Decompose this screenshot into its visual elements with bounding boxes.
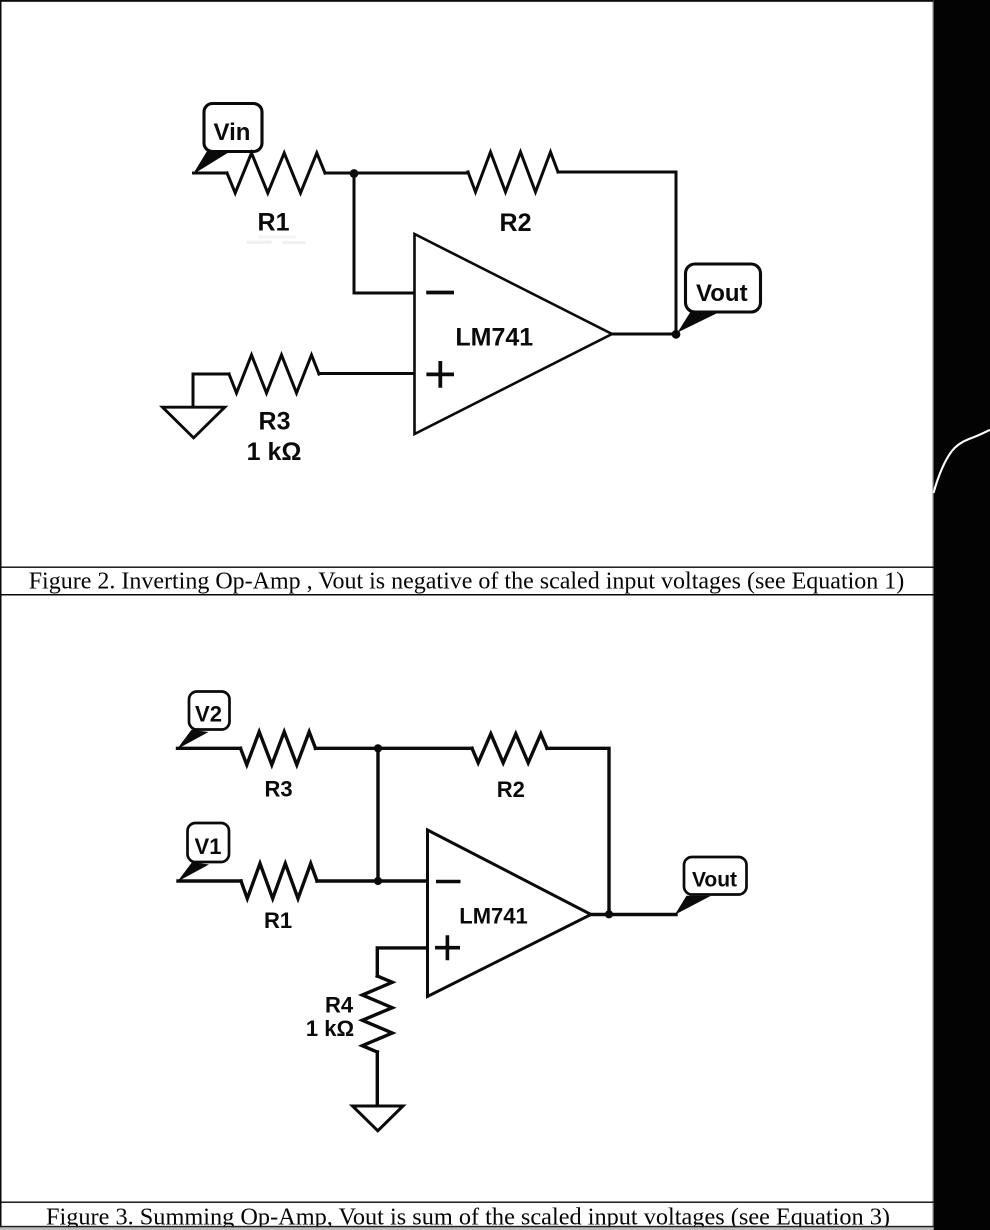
svg-text:V1: V1 bbox=[195, 834, 222, 859]
op-amp U2 plus pin sign bbox=[435, 935, 460, 960]
svg-text:R3: R3 bbox=[259, 408, 291, 436]
node Vout flag box (circuit 2) bbox=[684, 857, 747, 895]
node Vin flag box bbox=[204, 104, 262, 152]
wire non-inverting input to R4 bbox=[377, 948, 427, 976]
caption row 2 bottom border bbox=[0, 1226, 934, 1228]
resistor R3 zigzag (circuit 2) bbox=[241, 732, 316, 765]
ground symbol (circuit 1) bbox=[163, 407, 225, 438]
wire node B down to node C bbox=[376, 748, 379, 881]
wire op-amp 2 output bbox=[591, 913, 676, 916]
svg-text:R2: R2 bbox=[497, 777, 525, 802]
resistor R2 zigzag (circuit 2) bbox=[472, 734, 547, 763]
svg-text:R4: R4 bbox=[325, 993, 354, 1018]
op-amp U1 plus pin sign bbox=[426, 361, 454, 388]
wire V2 lead bbox=[178, 747, 241, 750]
node V1 flag box bbox=[188, 823, 230, 862]
node V2 tail wedge bbox=[177, 730, 209, 750]
resistor R3 zigzag bbox=[229, 355, 319, 393]
op-amp U1 minus pin sign bbox=[426, 291, 454, 295]
caption row 1 top border bbox=[0, 567, 934, 568]
svg-text:1 kΩ: 1 kΩ bbox=[247, 438, 302, 466]
svg-text:LM741: LM741 bbox=[459, 904, 527, 929]
scan smudge under R1 bbox=[246, 241, 272, 245]
wire R2 to output corner bbox=[558, 172, 676, 333]
svg-text:Vout: Vout bbox=[692, 868, 737, 891]
svg-text:R1: R1 bbox=[264, 908, 292, 933]
wire Vin lead bbox=[194, 172, 228, 175]
svg-text:R2: R2 bbox=[500, 209, 532, 237]
resistor R1 zigzag (circuit 2) bbox=[241, 864, 317, 899]
node junction dot output 2 bbox=[605, 910, 613, 918]
node V2 flag box bbox=[189, 692, 230, 730]
op-amp U2 minus pin sign bbox=[436, 880, 461, 884]
wire R2 to output corner (circuit 2) bbox=[547, 748, 609, 914]
svg-text:1 kΩ: 1 kΩ bbox=[306, 1016, 354, 1041]
wire R1 to R2 through node A bbox=[325, 172, 468, 173]
op-amp U2 triangle bbox=[428, 830, 592, 997]
scanner hair artifact (white curve) bbox=[934, 430, 990, 493]
node junction dot B bbox=[374, 744, 382, 752]
svg-text:R1: R1 bbox=[258, 209, 290, 237]
scanner black strip bbox=[934, 0, 990, 1230]
node Vout flag box bbox=[686, 264, 761, 312]
caption row 2 top border bbox=[0, 1202, 934, 1203]
table top border bbox=[0, 0, 934, 2]
resistor R2 zigzag bbox=[468, 152, 558, 192]
wire R4 to ground bbox=[376, 1052, 379, 1106]
table left border bbox=[0, 0, 2, 1230]
wire V1 lead bbox=[178, 879, 241, 882]
scan edge gray band bbox=[0, 1227, 934, 1230]
node Vout tail wedge (circuit 2) bbox=[675, 896, 711, 915]
node junction dot C bbox=[374, 877, 382, 885]
wire non-inverting input bbox=[319, 372, 414, 375]
node Vout tail wedge bbox=[678, 311, 720, 333]
ground symbol (circuit 2) bbox=[353, 1106, 404, 1131]
svg-text:Vin: Vin bbox=[214, 119, 251, 146]
op-amp U1 triangle bbox=[415, 234, 613, 434]
node junction dot output bbox=[672, 330, 681, 339]
resistor R1 zigzag bbox=[227, 153, 325, 193]
wire R1 to inverting input bbox=[317, 879, 427, 882]
node junction dot A bbox=[350, 169, 359, 178]
caption row 1 bottom border bbox=[0, 594, 934, 596]
svg-text:V2: V2 bbox=[195, 702, 222, 727]
svg-text:LM741: LM741 bbox=[455, 323, 533, 351]
resistor R4 zigzag (vertical) bbox=[362, 976, 392, 1052]
node Vin tail wedge bbox=[193, 152, 230, 175]
svg-text:Vout: Vout bbox=[696, 280, 748, 307]
wire R3 to ground bbox=[193, 374, 229, 407]
svg-text:R3: R3 bbox=[264, 777, 292, 802]
node V1 tail wedge bbox=[177, 862, 209, 881]
wire R3 to R2 through node B bbox=[316, 747, 473, 750]
wire node A down to inverting input bbox=[354, 173, 414, 293]
svg-text:Figure 2. Inverting Op-Amp , V: Figure 2. Inverting Op-Amp , Vout is neg… bbox=[29, 569, 905, 595]
wire op-amp output bbox=[612, 333, 676, 336]
